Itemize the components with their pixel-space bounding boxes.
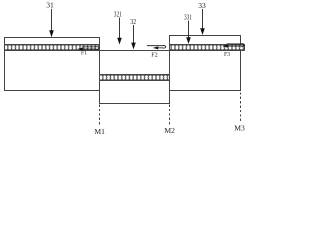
mark M3 dashed line: [240, 92, 242, 123]
leader arrow to block 33: [200, 9, 205, 35]
block 31 (left substrate): [5, 38, 100, 91]
block 33 (right substrate): [170, 36, 241, 91]
peel arrow F2 (u-turn arrow above block 32): [147, 46, 166, 50]
svg-text:31: 31: [46, 1, 54, 10]
block 32 (middle): [100, 51, 170, 104]
peel arrow F1 (u-turn arrow over strip F1): [77, 47, 99, 51]
mark M1 dashed line: [99, 105, 101, 127]
leader arrow to block 31: [49, 9, 54, 37]
mark M2 dashed line: [169, 105, 171, 127]
svg-text:F3: F3: [224, 52, 230, 58]
svg-text:M1: M1: [94, 127, 105, 136]
svg-text:331: 331: [184, 13, 192, 22]
adhesive strip F1 (hatched band in block 31): [5, 45, 100, 51]
svg-text:M3: M3: [234, 123, 245, 132]
svg-text:321: 321: [114, 10, 122, 19]
adhesive strip in block 32 (hatched band): [100, 75, 170, 81]
svg-text:F1: F1: [81, 50, 87, 56]
leader arrow to block 32: [131, 25, 136, 49]
peel arrow F3 (u-turn arrow over strip 331): [222, 44, 244, 48]
svg-text:32: 32: [130, 17, 136, 26]
adhesive strip 331 / F3 (hatched band, overhangs right edge of block 33): [170, 45, 245, 51]
svg-text:F2: F2: [151, 51, 158, 58]
leader arrow to top face of block 32: [117, 18, 122, 45]
leader arrow to strip 331 (crosses top edge of block 33): [186, 21, 191, 44]
svg-text:M2: M2: [164, 126, 175, 135]
svg-text:33: 33: [198, 1, 206, 10]
